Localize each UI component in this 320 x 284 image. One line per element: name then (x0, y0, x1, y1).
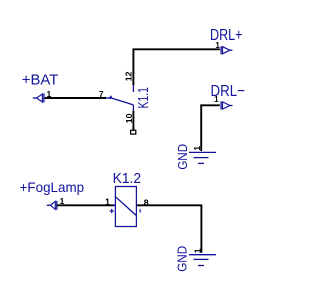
svg-text:1: 1 (193, 248, 203, 253)
svg-text:1: 1 (215, 41, 220, 50)
switch K1.1 common contact arrow (108, 95, 113, 99)
svg-text:K1.1: K1.1 (135, 87, 152, 108)
wire +BAT to K1.1 pin 7 (45, 97, 106, 99)
port +BAT (33, 93, 44, 102)
switch K1.1 pin 12 segment (132, 85, 134, 92)
svg-text:K1.2: K1.2 (113, 170, 142, 187)
coil pin 1 segment (113, 204, 116, 206)
port DRL- (221, 101, 232, 109)
unconnected pin square (131, 130, 136, 134)
wire +FogLamp to K1.2 pin 1 (57, 204, 116, 206)
port +FogLamp (47, 201, 57, 210)
wire DRL+ net (133, 49, 219, 85)
coil minus mark (139, 209, 141, 212)
relay coil K1.2 box (115, 187, 136, 227)
wire K1.1 pin 10 (132, 111, 134, 130)
svg-text:7: 7 (99, 89, 104, 99)
switch K1.1 throw stub (132, 105, 134, 111)
svg-text:8: 8 (144, 198, 149, 208)
wire K1.2 pin 8 to GND (136, 205, 201, 252)
svg-text:1: 1 (214, 95, 219, 104)
svg-text:+BAT: +BAT (22, 71, 59, 88)
port DRL+ (221, 46, 232, 54)
svg-text:1: 1 (192, 146, 202, 151)
svg-text:GND: GND (175, 144, 190, 170)
svg-text:10: 10 (124, 113, 134, 123)
svg-text:+FogLamp: +FogLamp (20, 179, 85, 195)
pin 7 blue segment (106, 97, 109, 99)
ground GND2 (189, 255, 216, 266)
coil diagonal (115, 197, 136, 216)
svg-text:12: 12 (124, 71, 134, 81)
coil pin 8 segment (136, 204, 139, 206)
ground GND1 (189, 152, 216, 163)
switch K1.1 blade (112, 98, 133, 105)
svg-text:GND: GND (175, 246, 190, 272)
wire DRL- to GND (201, 105, 220, 151)
coil plus mark (110, 209, 114, 213)
svg-text:1: 1 (105, 197, 110, 207)
